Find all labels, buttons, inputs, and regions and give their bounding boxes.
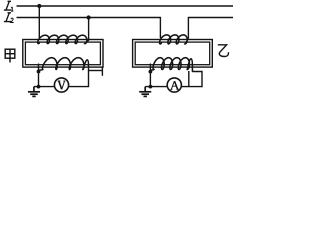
- wire transformer 乙 primary right up to L2: [187, 17, 189, 37]
- wire 乙 secondary right tail: [188, 71, 190, 87]
- transformer 甲 secondary coil: [39, 58, 89, 71]
- label 甲: [5, 49, 15, 62]
- node dot on 乙 secondary left wire: [149, 70, 153, 74]
- voltmeter V: [54, 78, 68, 92]
- transformer 乙 primary coil: [160, 35, 189, 44]
- ammeter A: [167, 78, 181, 92]
- ground (left): [28, 87, 40, 97]
- label L2: [4, 13, 14, 23]
- wire 乙 bottom horizontal to ammeter: [145, 86, 167, 88]
- node dot on 甲 secondary left wire: [37, 70, 41, 74]
- transformer 甲 core inner: [25, 42, 100, 65]
- wire voltmeter right to 甲 secondary right end: [69, 64, 89, 86]
- label L1: [4, 1, 14, 11]
- wire 甲 secondary left end down: [38, 64, 40, 87]
- transformer 乙 core outer: [133, 40, 213, 68]
- power line L1 wire: [17, 5, 234, 7]
- stub below 甲 core corner: [101, 67, 103, 76]
- wire L2 down into transformer 乙 primary left: [159, 17, 161, 38]
- wire 甲 bottom horizontal to voltmeter: [34, 86, 55, 88]
- wire 乙 secondary left end down: [149, 64, 151, 87]
- transformer 甲 core outer: [23, 40, 103, 68]
- label 乙: [218, 45, 229, 57]
- power line L2 wire right segment: [188, 17, 233, 19]
- node dot at 甲 ground junction: [37, 85, 41, 89]
- node dot on L1: [37, 4, 41, 8]
- wire from L1 down to transformer 甲 primary left: [38, 6, 40, 40]
- transformer 乙 core inner: [135, 42, 210, 65]
- node dot on L2: [87, 15, 91, 19]
- node dot at 乙 ground junction: [149, 85, 153, 89]
- wire 甲 secondary stub to core corner: [89, 70, 103, 72]
- transformer 甲 primary coil: [38, 35, 89, 43]
- ground (right): [139, 87, 151, 97]
- transformer 乙 secondary coil: [151, 58, 193, 72]
- power line L2 wire left segment: [17, 17, 161, 19]
- wire ammeter right up to 乙 secondary right end: [181, 72, 202, 87]
- wire from L2 down to transformer 甲 primary right: [88, 18, 90, 41]
